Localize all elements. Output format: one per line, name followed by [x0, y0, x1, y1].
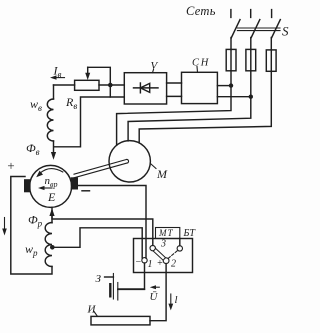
rotation arrow n: [40, 169, 63, 174]
switch S pole 1 terminal: [230, 10, 232, 18]
rheostat slider arrow: [88, 67, 111, 85]
svg-text:+: +: [7, 158, 16, 173]
svg-text:2: 2: [171, 259, 176, 270]
regulator winding wp: [45, 223, 52, 267]
svg-text:БТ: БТ: [183, 228, 197, 239]
wire minus brush to MT: [78, 186, 146, 259]
wire nameplate to terminal 3R: [179, 239, 181, 246]
terminal 1 circle: [142, 258, 147, 263]
switch S pole 1 blade: [231, 20, 240, 38]
shaft generator-motor: [74, 159, 129, 177]
flux arrow Фp up: [49, 208, 54, 216]
wire V to CH lower: [167, 95, 182, 97]
annotation arrow U: [153, 286, 159, 288]
svg-text:S: S: [282, 24, 289, 39]
flux arrow Фv: [53, 141, 55, 156]
svg-text:1: 1: [148, 259, 153, 270]
wire field return: [54, 97, 125, 147]
svg-text:СН: СН: [192, 58, 210, 69]
field winding wv: [47, 99, 53, 141]
junction dot phase1-CH: [229, 83, 233, 87]
battery lead right: [118, 288, 145, 290]
wire plus brush to left rail: [11, 177, 52, 275]
resistor Rv: [75, 80, 99, 90]
generator brush right: [71, 177, 78, 189]
annotation arrow l: [170, 294, 172, 307]
battery plate long 1: [112, 274, 114, 300]
terminal 2 circle: [163, 258, 169, 264]
switch S pole 2 blade: [251, 20, 260, 38]
arrow E left: [42, 187, 53, 189]
svg-text:Сеть: Сеть: [186, 4, 216, 18]
wire CH to phase 2: [217, 96, 250, 98]
nameplate MT: [156, 228, 180, 239]
fuse F1: [226, 49, 236, 70]
svg-text:3: 3: [160, 239, 166, 250]
box CH (stabilizer): [182, 72, 218, 103]
label minus: [82, 190, 90, 192]
wire generator bottom to MT terminal 3: [52, 207, 153, 245]
switch S linkage bar: [237, 27, 280, 29]
svg-text:E: E: [47, 190, 56, 204]
battery plate long 2: [117, 283, 119, 301]
wire wp tap to MT terminal 1: [52, 228, 142, 258]
switch S pole 3 terminal: [271, 10, 273, 18]
wire terminal 1 to battery: [118, 263, 145, 289]
wire CH to phase 1: [217, 85, 231, 87]
wire terminal 2 down: [150, 264, 166, 321]
fuse F2: [246, 49, 256, 70]
generator circle E: [30, 165, 72, 207]
svg-text:l: l: [175, 294, 178, 306]
wiper bar 2 to 3L: [153, 249, 165, 261]
wire down to field coil: [53, 85, 55, 99]
switch S pole 1 lead: [230, 38, 232, 50]
svg-text:Ū: Ū: [150, 291, 159, 303]
dashed line 2 to 3R: [168, 250, 178, 258]
terminal 3 left circle: [150, 245, 155, 250]
switch S pole 3 blade: [272, 20, 281, 38]
svg-text:−: −: [135, 257, 142, 268]
switch S pole 2 lead: [250, 38, 252, 50]
wire phase 3 fuse to motor: [139, 71, 271, 143]
switch S pole 3 lead: [270, 38, 272, 50]
box MT: [134, 239, 193, 273]
wire phase 1 fuse to motor: [117, 71, 231, 146]
junction dot phase2-CH: [249, 95, 253, 99]
terminal 3 right circle: [177, 246, 182, 251]
svg-text:МТ: МТ: [158, 228, 174, 238]
switch S pole 2 terminal: [250, 10, 252, 18]
wire Rv to V upper: [99, 84, 124, 86]
junction dot wp tap: [50, 245, 55, 250]
box V (rectifier): [124, 73, 166, 104]
generator brush left: [24, 179, 31, 192]
battery plate short thick: [109, 283, 111, 298]
battery Z lead left: [105, 276, 114, 278]
junction dot slider: [108, 83, 113, 88]
label M tick: [151, 164, 156, 169]
diode symbol in V: [134, 87, 159, 89]
svg-text:М: М: [156, 167, 168, 181]
annotation arrow Iv: [53, 77, 65, 79]
annotation arrow down left: [4, 218, 6, 233]
wire slider dot down: [109, 85, 111, 97]
wire V to CH upper: [167, 82, 182, 84]
wire phase 2 fuse to motor: [128, 71, 251, 141]
svg-text:З: З: [96, 273, 102, 285]
fuse F3: [266, 50, 276, 71]
wire field top: [54, 84, 75, 86]
resistor I (shunt): [91, 316, 150, 325]
motor circle M: [109, 141, 150, 182]
